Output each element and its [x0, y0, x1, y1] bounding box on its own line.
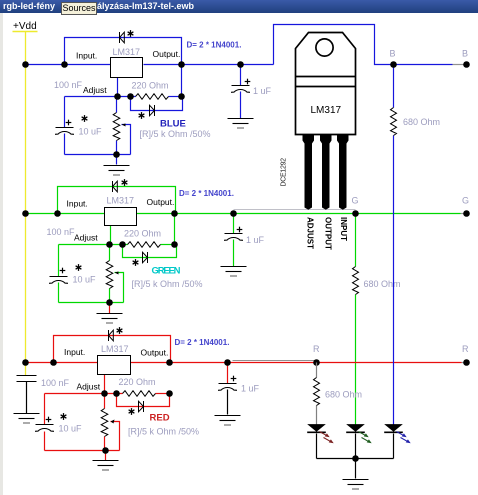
svg-text:100 nF: 100 nF	[54, 80, 83, 90]
svg-text:D= 2 * 1N4001.: D= 2 * 1N4001.	[187, 41, 242, 50]
svg-text:OUTPUT: OUTPUT	[323, 217, 332, 250]
node B right terminal	[463, 61, 470, 68]
svg-text:LM317: LM317	[311, 105, 342, 116]
wire blue adjust stem	[117, 78, 119, 97]
wire green pot stubs	[109, 245, 111, 261]
capacitor 1uF green	[224, 234, 243, 241]
capacitor 10uF red	[35, 425, 54, 432]
resistor 220 Ohm green	[128, 242, 161, 248]
wire red 10uF branch	[44, 394, 46, 425]
wire red pot wiper	[111, 422, 120, 451]
wire red pot stubs	[104, 394, 106, 409]
svg-text:Output.: Output.	[153, 49, 181, 59]
ground red 1uF	[215, 416, 241, 426]
wire gray parallel G	[234, 209, 356, 211]
node junction blue pot bottom	[113, 151, 120, 158]
+Vdd rail bar	[13, 31, 38, 33]
transistor package LM317 TO-220	[296, 33, 356, 135]
node junction red output	[166, 359, 173, 366]
svg-text:10 uF: 10 uF	[73, 275, 97, 285]
resistor 680 Ohm red column	[314, 378, 320, 406]
wire red feedback row	[45, 393, 123, 395]
potentiometer red	[101, 409, 108, 437]
svg-text:BLUE: BLUE	[160, 119, 186, 130]
node junction green feedback right	[171, 241, 178, 248]
node junction blue diode loop left	[127, 93, 134, 100]
diode D2 blue feedback	[150, 105, 155, 116]
node B column junction	[390, 61, 397, 68]
op-box U1 LM317 blue	[111, 58, 143, 78]
node junction blue 1uF	[237, 61, 244, 68]
wire blue feedback row	[65, 96, 136, 98]
svg-text:D= 2 * 1N4001.: D= 2 * 1N4001.	[175, 338, 230, 347]
node junction red 1uF	[224, 359, 231, 366]
svg-text:Input.: Input.	[76, 51, 97, 61]
title bar	[0, 0, 478, 13]
wire blue pot bottom stub	[116, 141, 118, 155]
wire blue output to cap node	[144, 64, 274, 66]
svg-text:680 Ohm: 680 Ohm	[403, 117, 440, 127]
LED3 blue	[384, 425, 403, 433]
svg-text:Adjust: Adjust	[74, 233, 98, 243]
svg-text:B: B	[390, 49, 396, 59]
svg-text:220 Ohm: 220 Ohm	[119, 377, 156, 387]
svg-text:INPUT: INPUT	[339, 217, 348, 241]
svg-text:RED: RED	[150, 413, 170, 424]
svg-text:Input.: Input.	[67, 199, 88, 209]
node dot common cathode	[352, 455, 359, 462]
svg-text:10 uF: 10 uF	[79, 127, 103, 137]
svg-text:LM317: LM317	[113, 47, 141, 57]
wire gray stub R right	[462, 362, 465, 364]
wire blue riser to top	[65, 38, 182, 65]
capacitor 10uF green	[49, 277, 68, 284]
wire red 1uF lower stem black	[227, 390, 229, 415]
wire green 10uF branch	[58, 245, 60, 277]
wire red diode loop	[117, 394, 170, 407]
wire blue pot top stub	[116, 97, 118, 113]
wire green output down to feedback	[174, 214, 176, 245]
node junction red input riser	[50, 359, 57, 366]
node junction green diode loop left	[119, 241, 126, 248]
wire green adjust stem	[110, 226, 112, 245]
wire green 1uF stem	[233, 214, 235, 234]
svg-text:G: G	[462, 196, 469, 206]
svg-text:[R]/5 k Ohm /50%: [R]/5 k Ohm /50%	[132, 279, 203, 289]
node junction red pot bottom	[102, 447, 109, 454]
wire gray stub G right	[461, 213, 465, 215]
svg-text:Adjust: Adjust	[77, 382, 101, 392]
wire green pot wiper	[115, 273, 124, 303]
wire blue pot ground stem	[116, 155, 118, 165]
wire red pot ground stem	[105, 451, 107, 461]
svg-text:[R]/5 k Ohm /50%: [R]/5 k Ohm /50%	[140, 129, 211, 139]
wire blue 1uF stem	[240, 65, 242, 86]
node junction blue feedback right	[178, 93, 185, 100]
wire blue pot wiper	[122, 125, 131, 155]
node junction green output	[171, 210, 178, 217]
resistor 220 Ohm red	[123, 391, 156, 397]
op-box U3 LM317 red	[98, 356, 131, 375]
diode D4 green feedback	[143, 252, 148, 263]
node G right terminal	[463, 210, 470, 217]
svg-text:220 Ohm: 220 Ohm	[124, 229, 161, 239]
node G column junction	[352, 210, 359, 217]
node R right terminal	[463, 359, 470, 366]
node junction green input riser	[54, 210, 61, 217]
potentiometer blue	[113, 113, 120, 141]
svg-text:LM317: LM317	[107, 196, 135, 206]
wire common cathode row	[317, 458, 394, 460]
svg-text:R: R	[462, 344, 469, 354]
LED2 green	[346, 425, 365, 433]
wire blue main input	[26, 64, 111, 66]
capacitor 100nF input	[17, 376, 37, 382]
node junction blue input riser	[61, 61, 68, 68]
node junction red adjust	[101, 390, 108, 397]
svg-text:LM317: LM317	[101, 344, 129, 354]
svg-text:Output.: Output.	[147, 197, 175, 207]
node junction Vdd-red input	[22, 359, 29, 366]
svg-text:Output.: Output.	[141, 348, 169, 358]
wire green feedback row	[59, 244, 128, 246]
resistor 220 Ohm blue	[136, 94, 169, 100]
node junction Vdd-green input	[22, 210, 29, 217]
LED1 red	[307, 425, 326, 433]
node junction blue output	[178, 61, 185, 68]
capacitor 1uF blue	[231, 86, 250, 93]
wire red riser to top	[54, 336, 171, 363]
svg-text:+Vdd: +Vdd	[13, 21, 37, 32]
pin 2 OUTPUT	[320, 135, 332, 210]
node junction red diode loop left	[113, 390, 120, 397]
svg-text:B: B	[462, 49, 468, 59]
wire green riser to top	[58, 187, 176, 214]
potentiometer green	[106, 261, 113, 289]
wire red main input	[26, 362, 98, 364]
wire green output row	[137, 213, 461, 215]
wire red adjust stem	[104, 375, 106, 394]
ground green pot	[97, 314, 123, 324]
capacitor 1uF red	[218, 384, 237, 391]
node R column junction	[313, 359, 320, 366]
wire gray parallel R	[233, 360, 317, 362]
ground blue pot	[104, 166, 130, 176]
diode D6 red feedback	[139, 401, 144, 412]
node junction Vdd-blue input	[22, 61, 29, 68]
svg-text:1 uF: 1 uF	[246, 235, 265, 245]
wire blue bypass over package	[274, 25, 453, 65]
svg-text:Adjust: Adjust	[83, 85, 107, 95]
wire blue bottom row	[65, 154, 131, 156]
svg-text:Input.: Input.	[64, 347, 85, 357]
diode D5 red	[109, 330, 114, 341]
wire green pot ground stem (red)	[109, 303, 111, 314]
wire blue diode loop	[131, 97, 183, 111]
svg-text:D= 2 * 1N4001.: D= 2 * 1N4001.	[179, 189, 234, 198]
wire red bottom row	[45, 450, 120, 452]
ground blue 1uF	[228, 119, 254, 129]
wire green column	[355, 214, 357, 267]
svg-text:G: G	[352, 196, 359, 206]
wire blue 10uF branch	[64, 97, 66, 128]
ground 100nF	[14, 414, 40, 424]
svg-text:DCE1292: DCE1292	[281, 158, 288, 187]
op-box U2 LM317 green	[105, 208, 137, 226]
wire red 1uF stem	[227, 363, 229, 384]
node junction green pot bottom	[106, 299, 113, 306]
svg-text:1 uF: 1 uF	[241, 384, 260, 394]
svg-text:1 uF: 1 uF	[253, 86, 272, 96]
svg-text:R: R	[313, 344, 320, 354]
node junction blue adjust	[114, 93, 121, 100]
wire green main input	[26, 213, 105, 215]
wire Vdd vertical yellow	[25, 32, 27, 376]
wire blue B right	[453, 64, 465, 66]
resistor 680 Ohm blue column	[391, 108, 397, 136]
diode D3 green	[113, 181, 118, 192]
svg-text:10 uF: 10 uF	[59, 424, 83, 434]
node junction green 1uF	[230, 210, 237, 217]
svg-text:[R]/5 k Ohm /50%: [R]/5 k Ohm /50%	[128, 427, 199, 437]
wire blue column	[393, 65, 395, 108]
ground common	[343, 480, 369, 490]
ground green 1uF	[221, 267, 247, 277]
pin 3 INPUT	[337, 135, 349, 210]
wire LED cathodes to common	[317, 434, 394, 479]
diode D1 blue	[120, 32, 125, 43]
wire green bottom row	[59, 302, 124, 304]
svg-text:680 Ohm: 680 Ohm	[325, 390, 362, 400]
Sources tooltip	[61, 2, 97, 15]
wire red output row	[131, 362, 462, 364]
wire 100nF stem black	[26, 382, 28, 414]
svg-text:680 Ohm: 680 Ohm	[364, 279, 401, 289]
wire green diode loop	[123, 245, 177, 258]
wire gray red column	[316, 363, 318, 378]
node junction green adjust	[106, 241, 113, 248]
capacitor 10uF blue	[55, 128, 74, 135]
resistor 680 Ohm green column	[353, 267, 359, 295]
ground red pot	[93, 461, 119, 471]
wire common ground stem	[355, 459, 357, 479]
svg-text:100 nF: 100 nF	[47, 227, 76, 237]
pin 1 ADJUST	[303, 135, 315, 210]
svg-text:220 Ohm: 220 Ohm	[132, 81, 169, 91]
svg-text:ADJUST: ADJUST	[305, 217, 314, 249]
wire blue output down to feedback	[181, 65, 183, 97]
svg-text:100 nF: 100 nF	[41, 378, 70, 388]
node junction red feedback right	[166, 390, 173, 397]
svg-text:GREEN: GREEN	[152, 266, 181, 277]
